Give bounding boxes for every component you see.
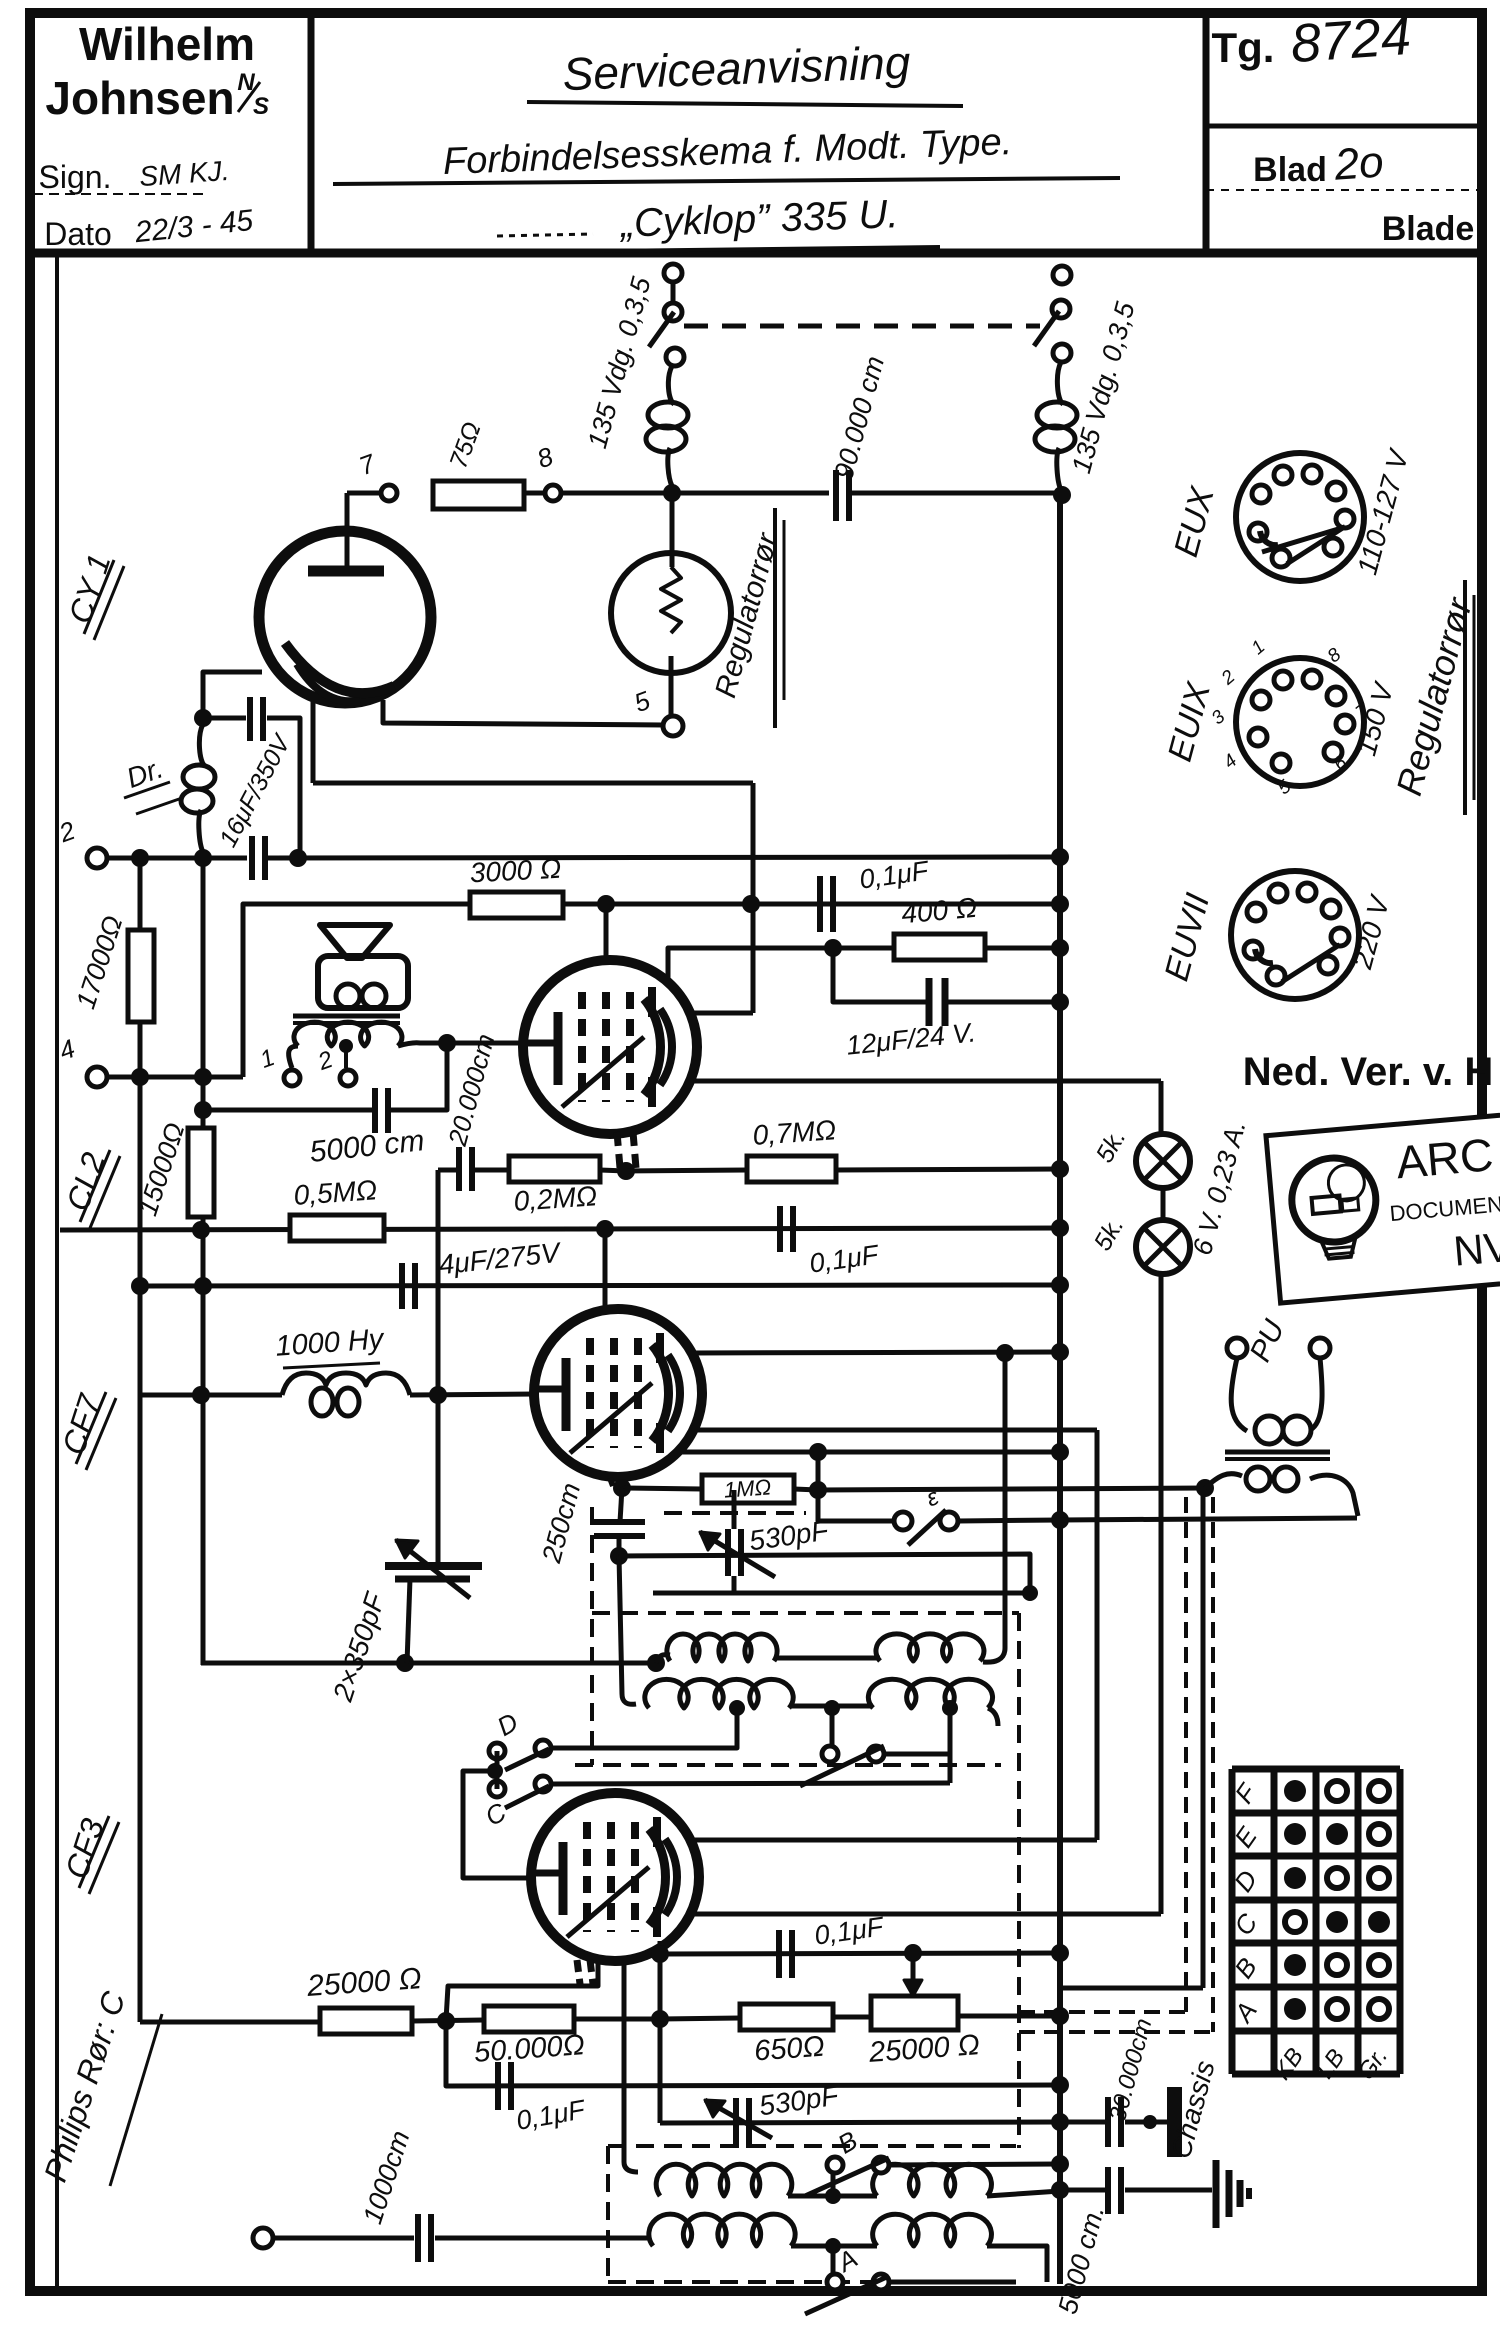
node CD [487, 1763, 503, 1779]
node bus g3 [1051, 1443, 1069, 1461]
node PU joint [1196, 1479, 1214, 1497]
node bus pot [1051, 2007, 1069, 2025]
wire E line to PU right [1060, 1518, 1357, 1520]
wire CF3 right drop [658, 1941, 663, 1954]
node x203 [194, 849, 212, 867]
wire 5000cm line [203, 1108, 372, 1113]
barretter coil left 135 Vdg 0,3,5 [668, 366, 674, 404]
capacitor 0,1uF bottom [495, 2062, 501, 2110]
wire CF7 g2 line [692, 1428, 1097, 1433]
socket EU X [1236, 453, 1364, 581]
archive stamp [1266, 1110, 1500, 1304]
node cathode CF7 [613, 1479, 631, 1497]
wire PU return [1060, 1986, 1203, 1991]
node 01uF tap [742, 895, 760, 913]
dashed pair to terminal strip [1184, 1497, 1188, 2012]
svg-text:0,2MΩ: 0,2MΩ [513, 1180, 599, 1217]
svg-text:Tg.: Tg. [1212, 24, 1275, 71]
node bus top [1053, 486, 1071, 504]
resistor 400 ohm [894, 934, 985, 960]
dashed grid link [664, 1511, 806, 1515]
node x203 5000cm [194, 1101, 212, 1119]
node x140 [131, 849, 149, 867]
oscillator coil row2 link [792, 1704, 873, 1709]
node bus HT [1051, 848, 1069, 866]
wire left drop x140 [138, 858, 143, 2022]
pin 1 terminal [284, 1070, 300, 1086]
wire CY1 bottom to elbow [313, 781, 753, 786]
wire C branch [551, 1783, 950, 1784]
node row2 right tap [942, 1700, 958, 1716]
resistor 0,7 Mohm [747, 1156, 836, 1182]
cathode dashes CF3 [590, 1960, 593, 1984]
speaker body with coil [318, 956, 408, 1008]
output tube CL2 [523, 960, 697, 1134]
wire IF primary feed drop [983, 1353, 1005, 1662]
node 4uF x140 [131, 1277, 149, 1295]
speaker cone [320, 925, 390, 958]
title block [30, 249, 1482, 258]
PU secondary [1231, 1358, 1247, 1431]
wire F to rail [884, 1752, 950, 1757]
wire lamp to pin5 [669, 656, 674, 716]
pin 2 terminal speaker [340, 1070, 356, 1086]
dashed screen box bottom [592, 1611, 1019, 1615]
svg-text:Dato: Dato [44, 216, 112, 252]
wire pin7 stem into CY1 [345, 493, 350, 573]
node F tap [824, 1700, 840, 1716]
variable capacitor 2x350pF [385, 1562, 482, 1570]
vertical x660 [658, 1954, 663, 2123]
wire 12uF to bus [947, 1000, 1060, 1005]
wire pot to bus [958, 2014, 1060, 2019]
svg-text:8724: 8724 [1289, 6, 1413, 74]
wire chassis line [1060, 2120, 1105, 2125]
wire HT line right [268, 857, 1060, 858]
dial lamp 2 [1136, 1220, 1190, 1274]
resistor 75 ohm [433, 481, 524, 509]
node bus 01uF bottom [1051, 2076, 1069, 2094]
node 2x350 stem [396, 1654, 414, 1672]
node 4uF x203 [194, 1277, 212, 1295]
switch B [827, 2157, 843, 2173]
node bus 12uF [1051, 993, 1069, 1011]
socket EU VIII [1231, 871, 1359, 999]
antenna coil row2 left [649, 2214, 795, 2246]
wire grid drop CF7 [603, 1229, 608, 1312]
node 50000 tap [437, 2012, 455, 2030]
node pot feed [904, 1944, 922, 1962]
wire anode feed drop [604, 904, 609, 962]
switch F [822, 1746, 838, 1762]
wire 50000 to x658 [574, 2017, 660, 2022]
wire heater line from CL2 [690, 1079, 1161, 1084]
antenna terminal [253, 2228, 273, 2248]
wire cathode down to coil row2 [619, 1556, 636, 1704]
wire elbow down to anode tap [751, 783, 756, 1013]
wire CF3 anode [689, 1838, 1097, 1843]
decoupling line 4uF [140, 1285, 1060, 1286]
dashed screen box left [590, 1507, 594, 1765]
wire heater drop [1159, 1274, 1164, 1914]
antenna coil row1 left [624, 2162, 638, 2172]
terminal board table [1232, 1769, 1400, 2074]
wire choke to tube [410, 1394, 536, 1395]
node bus 07M [1051, 1160, 1069, 1178]
wire lamp link [1161, 1188, 1166, 1220]
transformer core [293, 1014, 400, 1019]
capacitor 5000 cm ground [1105, 2167, 1111, 2214]
pin 7 terminal [381, 485, 397, 501]
node bus B [1051, 2155, 1069, 2173]
barretter coil right 135 Vdg 0,3,5 [1057, 362, 1063, 404]
node winding tap [339, 1039, 353, 1053]
node coil feed [647, 1654, 665, 1672]
node avc grid drop [596, 1220, 614, 1238]
wire switch E branch [818, 1490, 895, 1521]
wire switch S1 link [671, 282, 676, 303]
node x658 on 2020 [651, 2010, 669, 2028]
capacitor 0,1uF CF3 [776, 1930, 782, 1978]
wire CF7 g3 line [676, 1450, 1060, 1455]
wire corner up to 3000ohm line [243, 904, 470, 1077]
volume line left [140, 2020, 320, 2025]
node avc x203 [192, 1221, 210, 1239]
switch D [489, 1743, 505, 1759]
wire 1M to node [794, 1489, 818, 1490]
cathode dashes CL2 [617, 1132, 620, 1168]
node choke x203 [192, 1386, 210, 1404]
dashed antenna box [608, 2144, 1016, 2148]
wire 07M to bus [836, 1169, 1060, 1170]
choke line 1000Hy [140, 1393, 282, 1398]
svg-text:Johnsen: Johnsen [45, 72, 234, 124]
wire resistor to pin8 [524, 491, 545, 496]
wire 5000cm up to grid node [389, 1043, 447, 1110]
wire B to bus [889, 2164, 1060, 2165]
wire to 0,2M [475, 1168, 509, 1173]
wire row1 to bus [987, 2191, 1060, 2196]
node bus cath [1051, 1944, 1069, 1962]
capacitor 16uF lower [249, 836, 255, 880]
wire screen line [668, 948, 1060, 980]
svg-text:Sign.: Sign. [39, 159, 112, 195]
variable capacitor 530pF first [725, 1529, 731, 1576]
pin 4 terminal [87, 1067, 107, 1087]
potentiometer 25000 ohm [871, 1996, 958, 2030]
AVC line 0,5M [60, 1228, 1060, 1230]
resistor 17000 ohm [128, 930, 154, 1022]
svg-text:0,7MΩ: 0,7MΩ [752, 1114, 838, 1151]
wire pin5 left and up to tube [383, 700, 663, 725]
node 1M right [809, 1481, 827, 1499]
pin 2 terminal [87, 848, 107, 868]
wire PU down [1201, 1488, 1206, 1988]
pentode CF3 [531, 1793, 699, 1961]
wire HT line left [107, 856, 247, 861]
node anode feed [597, 895, 615, 913]
capacitor 20.000 cm [456, 1147, 462, 1191]
capacitor 250 cm [594, 1519, 645, 1525]
wire drop x203 [201, 858, 206, 1665]
node cath left [651, 1945, 669, 1963]
dashed link between mains switches [684, 324, 1040, 329]
wire antenna [273, 2236, 414, 2241]
svg-text:NV: NV [1452, 1223, 1500, 1275]
pentode CF7 [534, 1309, 702, 1477]
resistor 1 Mohm with label inside [702, 1475, 794, 1503]
node choke x438 [429, 1386, 447, 1404]
wire heater corner down [1159, 1081, 1164, 1134]
node chassis [1143, 2115, 1157, 2129]
socket EU IX [1236, 658, 1364, 786]
capacitor 16uF/350V upper [247, 697, 253, 741]
wire secondary to grid node [430, 1041, 447, 1046]
node 250cm bottom [610, 1547, 628, 1565]
capacitor 0,1uF top [817, 876, 823, 932]
wire 1M node up [816, 1452, 821, 1490]
wire CD common [495, 1751, 500, 1789]
svg-text:Blade: Blade [1382, 210, 1475, 248]
svg-text:0,5MΩ: 0,5MΩ [293, 1174, 379, 1211]
wire cap to ground [1125, 2188, 1212, 2193]
wire cap to chassis [1125, 2120, 1168, 2125]
chassis bar [1167, 2087, 1182, 2157]
node top junction [663, 484, 681, 502]
antenna coil row2 right [873, 2214, 992, 2246]
wire F branch [830, 1708, 835, 1746]
wire CF3 k drop [622, 1958, 627, 2162]
node row2 tap A [825, 2238, 841, 2254]
oscillator coil row1 right [876, 1634, 984, 1661]
resistor 25000 ohm left [320, 2008, 412, 2034]
wire anode elbow CL2 [688, 1011, 753, 1016]
wire row1 link [788, 2194, 877, 2199]
svg-text:SM KJ.: SM KJ. [138, 155, 230, 192]
node cathode CL2 [617, 1162, 635, 1180]
wire E to bus [958, 1520, 1060, 1521]
wire node to lamp [670, 495, 675, 567]
wire row2 right corner [987, 2246, 1047, 2282]
wire pin4 line [107, 1075, 243, 1080]
wire rail x950 [948, 1708, 953, 1783]
variable capacitor 530pF second [733, 2098, 739, 2148]
wire CY1 cathode left to choke [203, 672, 262, 712]
svg-text:650Ω: 650Ω [753, 2031, 826, 2068]
resistor 650 ohm [740, 2004, 833, 2030]
wire to node [412, 2020, 484, 2021]
wire detector line to PU [818, 1488, 1205, 1490]
grid return line [619, 1554, 1030, 1593]
node bus row1 [1051, 2181, 1069, 2199]
capacitor 5000 cm [372, 1088, 378, 1133]
wire cath line 01uF [660, 1953, 1060, 1954]
pin 8 terminal [545, 485, 561, 501]
PU primary [1205, 1474, 1242, 1488]
node pin4 x140 [131, 1068, 149, 1086]
wire x438 vertical [436, 1170, 441, 1565]
wire x658 to 650 [660, 2018, 740, 2019]
wire pin8 to node [561, 491, 829, 496]
arrow to potentiometer [911, 1953, 916, 1988]
node choke top [194, 709, 212, 727]
wire 530pF line [660, 2122, 1060, 2123]
node bus 530 [1051, 2113, 1069, 2131]
wire osc line left [201, 1661, 656, 1666]
wire 650 to pot [833, 2015, 871, 2020]
wire D branch [551, 1708, 737, 1748]
node IF feed [996, 1344, 1014, 1362]
node bus avc [1051, 1219, 1069, 1237]
wire cath to 1M [622, 1488, 702, 1489]
wire 3000ohm to bus [563, 902, 1060, 907]
transformer secondary winding [289, 1046, 298, 1068]
node row2 tap [729, 1700, 745, 1716]
oscillator coil row1 left [656, 1655, 670, 1663]
resistor 15000 ohm [188, 1128, 214, 1217]
resistor 3000 ohm [470, 892, 563, 918]
node grid feed [438, 1034, 456, 1052]
wire cath to 250cm [620, 1488, 622, 1522]
capacitor 1000 cm [415, 2214, 421, 2262]
wire A out [889, 2280, 1016, 2285]
oscillator coil row2 right [868, 1679, 992, 1708]
wire g2 drop right [1095, 1430, 1100, 1840]
node x300 [289, 849, 307, 867]
glow lamp regulator [611, 553, 731, 673]
dial lamp 1 [1136, 1134, 1190, 1188]
wire 12uF branch [833, 948, 926, 1002]
capacitor 30.000cm [1105, 2097, 1111, 2147]
wire CF7 anode to bus [691, 1352, 1060, 1353]
choke Dr. [199, 724, 205, 766]
wire B tap [831, 2173, 836, 2196]
switch A [827, 2274, 843, 2290]
wire antenna to coil [435, 2236, 650, 2241]
wire ground line [1060, 2188, 1105, 2193]
capacitor 4uF/275V [399, 1263, 405, 1309]
svg-text:1MΩ: 1MΩ [723, 1474, 772, 1502]
choke 1000 Hy [282, 1373, 410, 1395]
node row1 tap [825, 2188, 841, 2204]
wire cap to corner [267, 718, 300, 850]
cap 20000cm corner [438, 1168, 456, 1173]
resistor 0,5 Mohm [290, 1215, 384, 1241]
resistor 50.000 ohm [484, 2006, 574, 2032]
wire CF3 g2 [689, 1912, 1161, 1917]
svg-text:Ned. Ver. v. H: Ned. Ver. v. H [1243, 1050, 1494, 1094]
capacitor 12uF/24V [926, 978, 933, 1026]
wire row2 right hook [988, 1708, 998, 1726]
cathode dashes CF7 [610, 1478, 613, 1486]
wire CY1 bottom left down [311, 696, 316, 783]
pin 5 terminal [663, 716, 683, 736]
svg-text:Wilhelm: Wilhelm [79, 18, 255, 70]
wire pin7 to resistor [347, 491, 381, 496]
wire row2 link [791, 2244, 877, 2249]
wire 2x350 stem down [407, 1579, 410, 1663]
node pin4 x203 [194, 1068, 212, 1086]
wire CF3 cathode to grid-leak [446, 1956, 598, 2020]
node bus screen [1051, 939, 1069, 957]
main HT bus vertical [1057, 495, 1063, 2284]
wire grid line to tube [447, 1041, 523, 1046]
capacitor 90.000 cm [833, 470, 839, 521]
earth ground symbol [1213, 2160, 1220, 2228]
wire 530pF stems [732, 1576, 737, 1593]
svg-text:S: S [253, 93, 269, 120]
PU terminal left [1227, 1338, 1247, 1358]
svg-text:Blad: Blad [1253, 151, 1327, 189]
wire 01uF branch down [446, 2021, 1060, 2086]
oscillator coil row2 left [645, 1679, 793, 1708]
dashed screen box right [1017, 1613, 1021, 2148]
dashed line mid [575, 1763, 1001, 1767]
svg-text:2o: 2o [1332, 137, 1385, 189]
node bus CF7 anode [1051, 1343, 1069, 1361]
node bus 4uF [1051, 1276, 1069, 1294]
wire A tap [831, 2246, 836, 2274]
wire to filter cap [203, 716, 246, 721]
PU core [1225, 1450, 1330, 1455]
switch E [894, 1512, 912, 1530]
node 1030 [1022, 1585, 1038, 1601]
wire CD to grid CF3 [463, 1771, 532, 1878]
PU terminal right [1310, 1338, 1330, 1358]
node bus E [1051, 1511, 1069, 1529]
mains switch S1 left [664, 264, 682, 282]
node g3 1M [809, 1443, 827, 1461]
svg-text:3000 Ω: 3000 Ω [469, 853, 562, 889]
wire 02M to cathode node [600, 1170, 626, 1171]
node bus 01uF [1051, 895, 1069, 913]
mains switch S1 right [1053, 266, 1071, 284]
wire coil row1 link [777, 1656, 880, 1661]
wire to 0,7M [626, 1170, 747, 1171]
capacitor 0,1uF avc [777, 1206, 783, 1252]
switch C [489, 1781, 505, 1797]
antenna coil row1 right [873, 2164, 992, 2196]
wire cap to bus corner [849, 491, 1064, 496]
wire 250cm down [617, 1536, 622, 1556]
node screen junction [824, 939, 842, 957]
rectifier tube CY1 [259, 531, 431, 703]
resistor 0,2 Mohm [509, 1156, 600, 1182]
svg-text:400 Ω: 400 Ω [900, 892, 978, 929]
svg-text:ARC: ARC [1394, 1128, 1495, 1188]
